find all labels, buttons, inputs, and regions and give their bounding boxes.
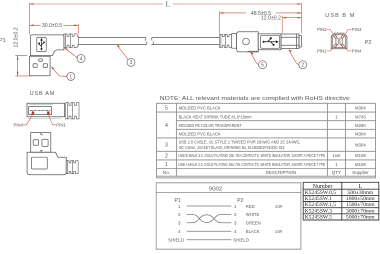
svg-text:M108: M108	[355, 162, 366, 167]
svg-text:5000±70mm: 5000±70mm	[346, 214, 375, 220]
svg-text:SHIELD: SHIELD	[168, 238, 184, 243]
svg-text:M108: M108	[355, 153, 366, 158]
svg-text:USB AM: USB AM	[30, 91, 55, 97]
svg-text:500±30mm: 500±30mm	[347, 190, 373, 196]
svg-text:BLACK HEAT SHRINK TUBE #1.0*10: BLACK HEAT SHRINK TUBE #1.0*10mm	[179, 114, 252, 120]
svg-text:GREEN: GREEN	[246, 221, 261, 226]
svg-text:12.0±0.2: 12.0±0.2	[13, 27, 19, 47]
svg-text:K5245SW.1: K5245SW.1	[305, 196, 333, 202]
callout 3	[117, 45, 128, 59]
svg-text:M304: M304	[355, 106, 366, 111]
svg-text:4: 4	[80, 56, 83, 62]
dimension 12.0±0.2 right (B plug)	[282, 16, 301, 33]
svg-text:M304: M304	[355, 132, 366, 137]
svg-text:2: 2	[301, 63, 304, 69]
cable break and right span	[152, 37, 220, 44]
dimension 30.0±0.5	[30, 24, 79, 34]
USB B face view: contacts	[336, 38, 338, 45]
USB B face view: pin position marks	[333, 35, 344, 48]
cable left span	[78, 37, 146, 44]
svg-text:L: L	[166, 1, 170, 9]
svg-text:K5245SW.3: K5245SW.3	[305, 208, 333, 214]
svg-text:2: 2	[165, 153, 168, 159]
svg-text:K5245SW.5: K5245SW.5	[305, 214, 333, 220]
svg-text:24#: 24#	[275, 204, 283, 209]
svg-text:P2: P2	[365, 40, 372, 46]
svg-text:PIN1: PIN1	[317, 49, 327, 54]
dimension L arrowheads	[30, 3, 302, 5]
svg-text:OD 4.5mm, JACKET BLACK, DRAWIN: OD 4.5mm, JACKET BLACK, DRAWING No. EU48…	[179, 145, 285, 150]
USB A top view: strain relief	[66, 103, 79, 119]
svg-text:SHIELD: SHIELD	[233, 238, 249, 243]
svg-text:USB A MALE 2.0, GOLD PLATING 3: USB A MALE 2.0, GOLD PLATING 36u' ON CON…	[178, 162, 325, 167]
USB A connector side view: molded body	[30, 35, 64, 56]
USB A side view: strain relief	[64, 34, 79, 48]
wiring diagram box	[156, 183, 301, 249]
svg-text:MOLDED PVC BLACK: MOLDED PVC BLACK	[179, 106, 222, 112]
USB A bottom view: body recess	[31, 157, 47, 169]
USB A side view: USB logo plate	[37, 37, 46, 51]
USB B side view: USB logo plate	[261, 35, 280, 48]
svg-text:1500±70mm: 1500±70mm	[346, 202, 375, 208]
USB A side view: metal shell	[30, 56, 51, 76]
dimension 12.0±0.2 left (P1 side)	[16, 55, 33, 76]
dimension 48.5±0.5	[219, 12, 301, 34]
svg-text:PIN1: PIN1	[56, 122, 66, 127]
callout 2	[289, 50, 299, 65]
USB B side view: neck step	[232, 34, 237, 49]
USB A bottom view: strain relief	[66, 161, 78, 174]
USB B side view: front section	[258, 34, 281, 50]
USB A top view: tongue	[29, 107, 52, 115]
USB B side view: metal shell	[281, 34, 301, 49]
BOM table grid	[157, 103, 376, 178]
USB A bottom view: molded body	[27, 152, 66, 174]
svg-text:K5245SW.0,5: K5245SW.0,5	[305, 190, 337, 196]
USB A side view: USB trident icon (vertical)	[38, 38, 45, 50]
USB A connector bottom view: metal shell	[31, 133, 51, 153]
callout 4	[65, 48, 78, 58]
svg-text:24#: 24#	[275, 229, 283, 234]
svg-text:MOLDED PE COLOR TRANSPARENT: MOLDED PE COLOR TRANSPARENT	[179, 123, 242, 129]
svg-text:3: 3	[165, 143, 168, 149]
svg-text:9G02: 9G02	[209, 187, 222, 193]
svg-text:3: 3	[130, 60, 133, 66]
callout 1	[51, 67, 66, 77]
svg-text:PIN2: PIN2	[317, 27, 327, 32]
svg-text:USB 2.0 CABLE, UL STYLE 1 TWIS: USB 2.0 CABLE, UL STYLE 1 TWISED PAIR 28…	[179, 139, 301, 144]
svg-text:4: 4	[165, 123, 168, 129]
svg-text:P1: P1	[0, 38, 6, 44]
svg-text:1: 1	[165, 162, 168, 168]
svg-text:USB B MALE 3.0, GOLD PLATING 3: USB B MALE 3.0, GOLD PLATING 30u' ON CON…	[178, 153, 325, 158]
svg-text:5: 5	[261, 63, 264, 69]
USB B side view: grip ripples	[248, 50, 258, 53]
svg-text:1800±50mm: 1800±50mm	[346, 196, 375, 202]
svg-text:MOLDED PVC BLACK: MOLDED PVC BLACK	[179, 132, 222, 138]
svg-text:USB B M: USB B M	[325, 13, 355, 19]
svg-text:PIN4: PIN4	[14, 122, 24, 127]
USB B side view: molded body	[237, 32, 259, 52]
dimension L overall length	[30, 3, 302, 35]
part number table grid	[303, 182, 379, 220]
svg-text:WHITE: WHITE	[246, 212, 260, 217]
svg-text:3000±70mm: 3000±70mm	[346, 208, 375, 214]
svg-text:1: 1	[69, 74, 72, 80]
svg-text:DESCRIPTION: DESCRIPTION	[266, 170, 297, 175]
svg-text:RED: RED	[246, 204, 255, 209]
svg-text:NOTE: ALL relevant materials a: NOTE: ALL relevant materials are complie…	[160, 96, 350, 102]
USB B face view: inner outline	[333, 34, 346, 47]
svg-text:M743: M743	[355, 114, 366, 119]
USB A top view: hidden contact line	[30, 110, 50, 112]
svg-text:5: 5	[165, 106, 168, 112]
USB B side view: body hole circle	[243, 38, 250, 45]
svg-text:M280: M280	[355, 123, 366, 128]
USB A plug top view: shell	[27, 103, 65, 117]
svg-text:30.0±0.5: 30.0±0.5	[42, 23, 62, 29]
svg-text:PIN3: PIN3	[352, 27, 362, 32]
USB B connector side view: strain relief	[219, 34, 231, 47]
USB B side view: USB trident icon (horizontal)	[263, 37, 279, 46]
callout 5	[251, 52, 259, 64]
svg-text:Supplier: Supplier	[352, 170, 369, 175]
svg-text:BLACK: BLACK	[246, 229, 260, 234]
USB A top view: highlight lines	[30, 104, 53, 106]
USB B plug face view: outer shell outline	[331, 33, 347, 49]
svg-text:12.0±0.2: 12.0±0.2	[261, 16, 281, 22]
svg-text:P2: P2	[237, 198, 243, 204]
svg-text:No.: No.	[163, 170, 170, 175]
svg-text:K5245SW.1,5: K5245SW.1,5	[305, 202, 337, 208]
wiring diagram title divider	[156, 192, 301, 194]
svg-text:M304: M304	[355, 143, 366, 148]
svg-text:QTY: QTY	[332, 170, 341, 175]
svg-text:1set: 1set	[332, 153, 341, 158]
svg-text:PIN4: PIN4	[352, 49, 362, 54]
USB A top view: contact marks	[31, 111, 34, 114]
